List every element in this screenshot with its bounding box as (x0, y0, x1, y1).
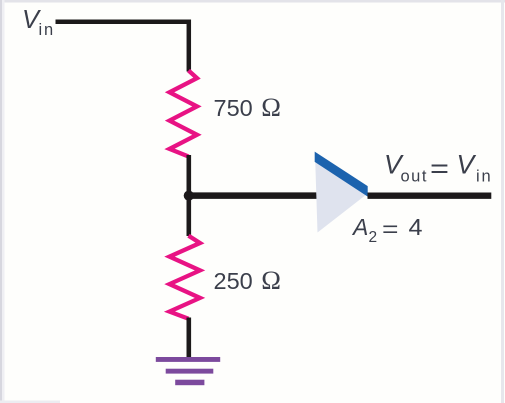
svg-text:250 Ω: 250 Ω (214, 265, 281, 295)
op-amp buffer A2 (triangle body) (315, 154, 368, 233)
svg-text:in: in (39, 21, 55, 39)
output wire Vout (368, 192, 492, 198)
ground symbol bar 3 (175, 380, 204, 386)
ground symbol bar 2 (166, 369, 214, 374)
ground symbol bar 1 (156, 357, 220, 362)
label Vout = Vin (384, 149, 492, 185)
op-amp A2 blue top edge (315, 152, 368, 197)
svg-text:A: A (351, 214, 368, 240)
wire from node A to buffer amplifier input (189, 192, 318, 199)
svg-text:V: V (457, 149, 477, 179)
svg-text:=: = (430, 154, 449, 184)
gain label A2 = 4 (351, 214, 423, 246)
node label Vin (22, 6, 55, 39)
svg-text:out: out (401, 167, 428, 185)
svg-text:2: 2 (369, 229, 378, 246)
wire from Vin to top of resistor R1 (56, 22, 189, 72)
svg-text:=: = (382, 216, 399, 242)
wire from R2 bottom to ground (187, 318, 192, 360)
resistor R1 750 ohm (zigzag) (170, 71, 198, 157)
node A junction dot (184, 191, 194, 201)
svg-text:750 Ω: 750 Ω (214, 92, 281, 122)
svg-text:in: in (476, 167, 492, 185)
resistor R2 250 ohm (zigzag) (170, 236, 201, 319)
wire from R1 bottom through node A to top of R2 (187, 155, 192, 236)
svg-text:4: 4 (409, 214, 423, 240)
